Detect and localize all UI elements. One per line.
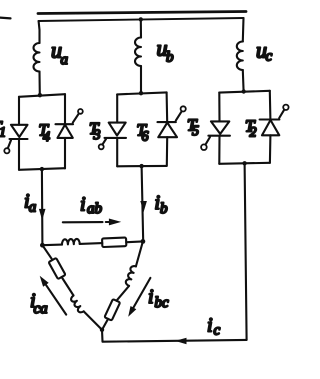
gate lead T3 [102, 139, 106, 145]
wire: bridge3 left branch upper [218, 93, 220, 122]
node: bridge2 bottom junction [139, 164, 143, 168]
svg-text:4: 4 [43, 130, 50, 145]
wire: delta edge B-C lower [102, 319, 108, 330]
wire: bridge3 bottom rail [219, 163, 269, 164]
wire: bridge3 left branch lower [218, 136, 220, 164]
wire: phase c feeder right side down [245, 163, 247, 340]
svg-text:i: i [148, 286, 154, 308]
wire: phase b to bridge 2 [140, 66, 142, 93]
wire: bridge1 right branch upper [64, 94, 66, 124]
thyristor T6 [158, 121, 176, 123]
wire: phase b drop from bus [140, 19, 142, 37]
svg-text:ab: ab [87, 201, 103, 217]
inductor source u_c [237, 42, 243, 71]
thyristor T4 [56, 123, 74, 125]
node: bridge2 top junction [139, 91, 143, 95]
wire: bridge3 right branch lower [269, 135, 272, 163]
gate lead T5 [206, 137, 210, 144]
wire: bridge2 bottom rail [117, 165, 166, 168]
wire: bridge2 right branch upper [166, 92, 169, 122]
svg-text:1: 1 [0, 126, 6, 141]
svg-text:6: 6 [142, 130, 149, 145]
node: bridge3 bottom junction [242, 161, 246, 165]
node B: delta top-right [141, 239, 146, 244]
svg-text:a: a [61, 52, 69, 68]
inductor load L_bc [126, 266, 136, 286]
inductor source u_b [135, 38, 141, 67]
gate lead T1 [8, 140, 11, 148]
arrow: current i_a [39, 209, 46, 220]
wire: bridge1 right branch lower [64, 138, 66, 169]
wire: bridge2 top rail [117, 92, 166, 94]
wire: bridge1 top rail [19, 94, 65, 97]
svg-text:c: c [266, 49, 273, 65]
thyristor T1 [11, 125, 28, 137]
svg-text:b: b [160, 201, 168, 217]
wire: phase a feeder to delta node A [41, 169, 44, 245]
wire: top supply bus line 1 [38, 12, 246, 14]
node: bus junction phase b [139, 17, 143, 21]
svg-text:i: i [207, 315, 213, 337]
svg-text:ca: ca [34, 301, 48, 317]
arrow: current i_ca [46, 285, 66, 315]
thyristor T2 [260, 118, 280, 120]
wire: phase a to bridge 1 [38, 72, 40, 96]
wire: bridge3 top rail [219, 91, 269, 93]
gate lead T2 [279, 110, 284, 118]
wire: stray mark left margin [0, 17, 11, 20]
wire: delta edge A-B middle [80, 242, 103, 245]
wire: delta edge B-C middle [117, 286, 130, 301]
gate lead T4 [73, 114, 79, 123]
resistor load R_ca [49, 258, 66, 279]
wire: bridge1 left branch lower [18, 139, 20, 170]
svg-text:c: c [214, 323, 221, 339]
node: bridge3 top junction [242, 89, 246, 93]
svg-text:2: 2 [250, 126, 257, 141]
inductor load L_ab [62, 239, 80, 245]
node C: delta bottom [100, 328, 104, 332]
wire: bridge1 bottom rail [19, 168, 65, 170]
wire: phase c drop from bus [242, 18, 245, 42]
wire: phase c to bridge 3 [242, 70, 245, 92]
arrow: current i_b [140, 201, 147, 212]
wire: node C stub to bottom run [101, 330, 104, 342]
svg-text:3: 3 [93, 128, 101, 143]
svg-text:bc: bc [155, 295, 170, 311]
svg-text:i: i [80, 194, 86, 216]
resistor load R_bc [104, 299, 120, 321]
wire: delta edge A-C upper [42, 245, 51, 259]
wire: phase a drop from bus [38, 21, 41, 43]
wire: delta edge B-C upper [136, 241, 143, 266]
wire: delta edge A-B left part [42, 244, 62, 247]
wire: phase c bottom run to delta node C [103, 340, 247, 342]
wire: top supply bus line 2 [39, 18, 244, 21]
wire: bridge1 left branch upper [18, 97, 20, 125]
wire: bridge2 left branch lower [116, 138, 118, 166]
node: bridge1 bottom junction [40, 167, 44, 171]
node: bridge1 top junction [38, 93, 42, 97]
wire: delta edge A-C lower [84, 311, 102, 329]
wire: bridge3 right branch upper [269, 91, 272, 120]
wire: bridge2 right branch lower [166, 137, 168, 166]
wire: bridge2 left branch upper [116, 94, 118, 122]
arrow: current i_c [175, 338, 187, 345]
thyristor T5 [211, 121, 229, 133]
inductor load L_ca [71, 296, 84, 313]
arrow: current i_bc [133, 278, 150, 308]
wire: phase b feeder to delta node B [142, 166, 144, 241]
arrow: current i_ab [63, 221, 103, 223]
wire: delta edge A-C middle [62, 277, 74, 296]
svg-text:b: b [166, 50, 174, 66]
svg-text:5: 5 [192, 124, 199, 139]
inductor source u_a [34, 43, 40, 72]
resistor load R_ab [102, 238, 126, 248]
thyristor T3 [109, 123, 126, 136]
node A: delta top-left [40, 243, 45, 248]
gate lead T6 [176, 111, 182, 120]
wire: delta edge A-B right part [126, 240, 143, 243]
svg-text:a: a [29, 200, 37, 216]
